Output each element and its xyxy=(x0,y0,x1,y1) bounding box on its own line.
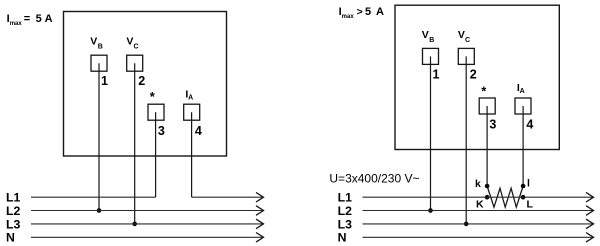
net N xyxy=(31,236,263,238)
svg-text:K: K xyxy=(476,198,484,210)
svg-text:B: B xyxy=(98,44,103,51)
wire terminal 4 to CT secondary l xyxy=(522,106,524,186)
svg-text:*: * xyxy=(150,89,156,104)
svg-text:3: 3 xyxy=(489,117,496,131)
net L1 outgoing segment xyxy=(192,196,263,198)
net L3 xyxy=(31,223,263,225)
wire terminal 3 to L1 in xyxy=(155,112,157,197)
svg-text:C: C xyxy=(134,44,139,51)
svg-text:l: l xyxy=(527,178,530,190)
terminal 4 (I_A) xyxy=(184,104,200,120)
arrowhead L3 xyxy=(256,219,264,229)
svg-text:k: k xyxy=(475,178,481,190)
arrowhead L1 (right) xyxy=(586,192,594,202)
terminal 2 (V_C) xyxy=(127,55,143,71)
arrowhead N (right) xyxy=(586,233,594,243)
svg-text:1: 1 xyxy=(101,74,108,88)
svg-text:N: N xyxy=(338,231,347,245)
svg-text:L: L xyxy=(527,198,534,210)
arrowhead N xyxy=(256,233,264,243)
node k (CT secondary) xyxy=(485,184,490,189)
net L2 xyxy=(31,210,263,212)
terminal 1 (V_B) xyxy=(91,55,107,71)
terminal 3 (current in, *) xyxy=(148,104,164,120)
svg-text:L3: L3 xyxy=(338,217,353,231)
node junction on L3 xyxy=(132,222,137,227)
net L2 (right) xyxy=(363,210,593,212)
wire terminal 1 to L2 xyxy=(98,63,100,210)
svg-text:L3: L3 xyxy=(6,217,21,231)
svg-text:V: V xyxy=(126,36,133,48)
svg-text:L2: L2 xyxy=(6,204,21,218)
wire terminal 4 to L1 out xyxy=(191,112,193,197)
net L1 incoming segment xyxy=(31,196,156,198)
svg-text:4: 4 xyxy=(195,124,202,138)
wire terminal 2 to L3 xyxy=(134,63,136,224)
svg-text:V: V xyxy=(422,29,429,41)
svg-text:2: 2 xyxy=(470,68,477,82)
net L1 (right) xyxy=(363,196,593,198)
arrowhead L2 (right) xyxy=(586,206,594,216)
svg-text:V: V xyxy=(90,36,97,48)
terminal 3 (current in, *, right) xyxy=(479,98,495,114)
wire terminal 2 to L3 (right) xyxy=(465,56,467,224)
current transformer T1 winding (zigzag) xyxy=(487,186,523,207)
arrowhead L2 xyxy=(256,206,264,216)
arrowhead L1 xyxy=(256,192,264,202)
svg-text:V: V xyxy=(458,29,465,41)
net N (right) xyxy=(363,236,593,238)
meter M1 (direct-connected meter, Imax = 5 A) xyxy=(64,12,227,157)
svg-text:B: B xyxy=(429,37,434,44)
node junction on L3 (right) xyxy=(464,222,469,227)
node L (CT primary, on L1) xyxy=(521,195,526,200)
svg-text:L1: L1 xyxy=(338,191,353,205)
svg-text:A: A xyxy=(188,95,193,102)
terminal 1 (V_B, right) xyxy=(423,48,439,64)
net L3 (right) xyxy=(363,223,593,225)
svg-text:N: N xyxy=(6,231,15,245)
node junction on L2 xyxy=(97,208,102,213)
meter M2 (transformer-connected meter, Imax > 5 A) xyxy=(395,5,559,149)
svg-text:1: 1 xyxy=(433,68,440,82)
svg-text:2: 2 xyxy=(138,74,145,88)
svg-text:A: A xyxy=(520,88,525,95)
svg-text:Imax=5A: Imax=5A xyxy=(7,13,53,27)
svg-text:L1: L1 xyxy=(6,191,21,205)
terminal 4 (I_A, right) xyxy=(515,98,531,114)
node l (CT secondary) xyxy=(521,184,526,189)
arrowhead L3 (right) xyxy=(586,219,594,229)
terminal 2 (V_C, right) xyxy=(458,48,474,64)
node junction on L2 (right) xyxy=(428,208,433,213)
svg-text:3: 3 xyxy=(158,124,165,138)
svg-text:C: C xyxy=(465,37,470,44)
wire terminal 3 to CT secondary k xyxy=(486,106,488,186)
svg-text:4: 4 xyxy=(526,117,533,131)
wire terminal 1 to L2 (right) xyxy=(430,56,432,210)
svg-text:Imax>5A: Imax>5A xyxy=(339,6,384,20)
svg-text:*: * xyxy=(481,84,487,99)
node K (CT primary, on L1) xyxy=(485,195,490,200)
svg-text:U=3x400/230 V~: U=3x400/230 V~ xyxy=(329,172,419,186)
svg-text:L2: L2 xyxy=(338,204,353,218)
